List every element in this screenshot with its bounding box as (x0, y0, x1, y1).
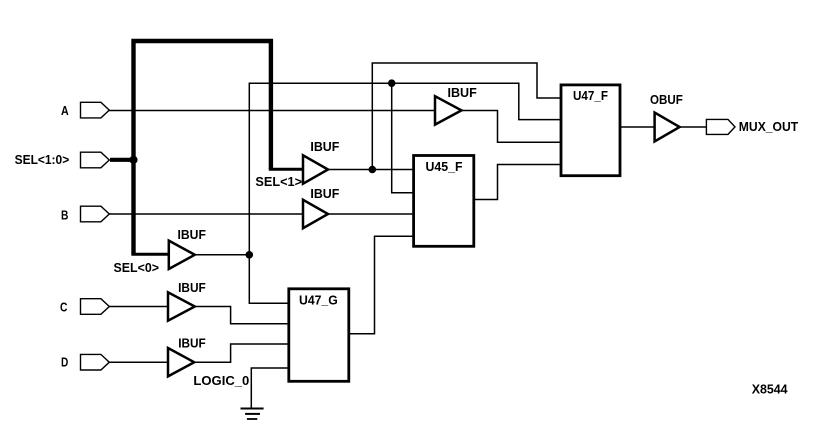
svg-text:OBUF: OBUF (650, 92, 683, 107)
wire IBUF(B) output to U45_F pin 3 (326, 213, 414, 215)
svg-text:U47_F: U47_F (573, 88, 608, 103)
wire U45_F output to U47_F pin 4 (474, 165, 561, 200)
input pin A (61, 102, 109, 118)
buffer IBUF (SEL<1>) (255, 139, 339, 189)
bus tap to IBUF SEL<0> (131, 253, 169, 256)
junction dot on bus at SEL<1:0> pin (129, 156, 137, 164)
bus tap to IBUF SEL<1> (269, 168, 304, 171)
svg-text:SEL<0>: SEL<0> (114, 260, 160, 275)
wire IBUF(A) output to U47_F pin 3 (460, 111, 561, 143)
svg-text:D: D (61, 354, 68, 369)
wire U47_G output to U45_F pin 4 (349, 236, 414, 333)
wire net SEL0 branch down to U45_F pin 2 (392, 83, 414, 193)
svg-text:SEL<1>: SEL<1> (255, 174, 302, 189)
input pin B (61, 206, 109, 222)
buffer OBUF (650, 92, 683, 142)
svg-text:MUX_OUT: MUX_OUT (739, 119, 798, 134)
svg-text:U47_G: U47_G (299, 293, 338, 308)
svg-text:U45_F: U45_F (426, 159, 463, 174)
wire IBUF(D) output to U47_G pin 3 (193, 344, 289, 362)
wire A input to IBUF (109, 110, 435, 112)
wire D input to IBUF (109, 361, 168, 363)
wire net SEL1 riser to U47_F pin 1 (372, 63, 561, 170)
junction dot net SEL0 top run (388, 79, 396, 87)
block U45_F (414, 156, 474, 247)
svg-text:C: C (60, 299, 68, 314)
svg-text:IBUF: IBUF (178, 227, 206, 242)
svg-text:B: B (61, 208, 68, 223)
buffer IBUF (SEL<0>) (114, 227, 206, 275)
output pin MUX_OUT (706, 119, 798, 135)
wire net SEL0 branch down to U47_G pin 1 (249, 255, 288, 303)
svg-text:IBUF: IBUF (448, 85, 477, 100)
svg-text:LOGIC_0: LOGIC_0 (193, 373, 249, 388)
svg-text:IBUF: IBUF (310, 186, 339, 201)
wire C input to IBUF (109, 306, 168, 308)
block U47_G (289, 289, 349, 382)
wire net SEL0 riser to top run (249, 83, 391, 255)
wire net SEL0 top run to U47_F pin 2 (392, 83, 561, 119)
input pin D (61, 354, 109, 370)
wire LOGIC_0 to U47_G pin 4 (251, 368, 288, 409)
buffer IBUF (A) (435, 85, 477, 125)
wire B input to IBUF (109, 213, 303, 215)
block U47_F (561, 85, 620, 176)
wire OBUF output to MUX_OUT pin (678, 126, 706, 128)
wire IBUF(SEL0) output to junction (193, 254, 249, 256)
ground symbol (LOGIC_0) (241, 409, 264, 420)
buffer IBUF (C) (168, 280, 206, 321)
junction dot net SEL0 at IBUF output (246, 251, 254, 259)
svg-text:IBUF: IBUF (310, 139, 339, 154)
wire IBUF(SEL1) output to U45_F pin 1 (326, 169, 414, 171)
bus SEL<1:0> pin stub (110, 158, 136, 162)
wire IBUF(C) output to U47_G pin 2 (193, 307, 289, 324)
svg-text:IBUF: IBUF (178, 280, 206, 295)
svg-text:SEL<1:0>: SEL<1:0> (15, 152, 70, 167)
svg-text:A: A (61, 103, 69, 118)
wire U47_F output to OBUF (620, 126, 655, 128)
junction dot net SEL1 (369, 166, 377, 174)
buffer IBUF (B) (303, 186, 339, 228)
bus SEL<1:0> main run (134, 41, 271, 254)
svg-text:X8544: X8544 (752, 382, 789, 397)
svg-text:IBUF: IBUF (178, 336, 206, 351)
input pin SEL<1:0> (15, 152, 110, 168)
input pin C (60, 299, 109, 315)
buffer IBUF (D) (168, 336, 206, 377)
